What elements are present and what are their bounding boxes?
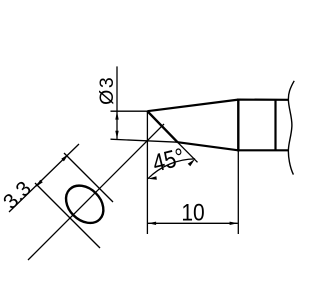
dimension line dia3 vertical — [116, 66, 118, 138]
arrow 3.3 upper — [61, 154, 68, 161]
arrow 10 right — [230, 222, 238, 225]
tip cone top edge — [147, 100, 238, 112]
svg-text:Ø3: Ø3 — [96, 76, 118, 105]
extension tick lower (3.3) — [35, 183, 100, 248]
shank bottom edge — [238, 149, 288, 151]
shank top edge — [238, 98, 288, 100]
shank left edge — [237, 99, 239, 152]
arrow dia3 down — [115, 131, 118, 139]
arrow 10 left — [148, 222, 156, 225]
extension line shank end vertical — [237, 150, 239, 234]
extension tick upper (3.3) — [64, 153, 113, 202]
arrow arc left — [148, 176, 157, 180]
plating boundary line — [274, 100, 276, 151]
extension line top (apex level) — [111, 110, 148, 112]
cone bottom edge — [178, 142, 239, 150]
45deg thin extension of bevel edge — [178, 142, 198, 162]
break line wavy — [288, 81, 294, 175]
arrow arc right — [188, 159, 195, 166]
angle arc 45deg — [148, 159, 195, 179]
ellipse centerline — [28, 124, 164, 260]
extension line bottom (bevel base level) — [111, 139, 178, 142]
dimension line 10 — [148, 222, 238, 224]
arrow dia3 up — [115, 111, 118, 119]
extension line apex vertical — [146, 111, 148, 234]
svg-text:10: 10 — [181, 199, 204, 225]
bevel edge 45deg — [147, 111, 177, 142]
bevel face ellipse — [59, 178, 111, 230]
dimension line 3.3 — [9, 144, 79, 212]
arrow 3.3 lower — [36, 180, 43, 187]
